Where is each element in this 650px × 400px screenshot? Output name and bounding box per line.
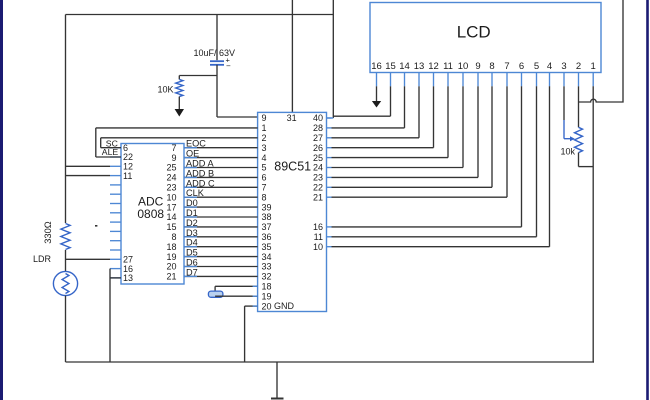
svg-text:ADD A: ADD A	[186, 159, 214, 169]
svg-text:OE: OE	[186, 149, 199, 159]
svg-text:24: 24	[166, 173, 176, 183]
label D5	[186, 248, 198, 258]
wire LCD pin13 to 89C51 pin 27	[332, 86, 420, 138]
label SC	[106, 138, 118, 148]
svg-text:26: 26	[313, 143, 323, 153]
svg-text:6: 6	[519, 61, 524, 72]
svg-text:10k: 10k	[560, 147, 575, 157]
LCD pin stubs	[377, 73, 594, 87]
svg-text:21: 21	[166, 272, 176, 282]
svg-text:3: 3	[561, 61, 566, 72]
label R2 330ohm (vertical)	[43, 221, 53, 244]
svg-text:−: −	[226, 62, 231, 71]
label R1 10K	[157, 85, 173, 95]
wire +5V right vertical to 89C51 pin 40	[332, 0, 334, 118]
ground arrow under LCD pin16	[372, 101, 381, 108]
wire ADC D7 to 89C51 pin 32	[184, 275, 258, 277]
ground arrow under R1	[175, 109, 184, 117]
wire ADC D1 to 89C51 pin 38	[184, 216, 258, 218]
wire LCD pin10 to 89C51 pin 24	[332, 86, 464, 167]
wire LCD pin5 to 89C51 pin 11	[332, 86, 537, 237]
svg-text:ALE: ALE	[102, 147, 119, 157]
svg-text:13: 13	[123, 273, 133, 283]
svg-text:23: 23	[166, 183, 176, 193]
svg-text:16: 16	[313, 222, 323, 232]
svg-text:D2: D2	[186, 218, 198, 228]
label D6	[186, 258, 198, 268]
label U1 ADC 0808	[137, 195, 164, 222]
svg-text:D5: D5	[186, 248, 198, 258]
wire +5V left vertical (to ADC Vcc/Vref and LDR divider)	[65, 15, 67, 224]
resistor R1 10K	[176, 79, 183, 96]
svg-text:25: 25	[166, 163, 176, 173]
page border right (navy)	[646, 0, 649, 400]
label CLK	[186, 188, 205, 198]
svg-text:20: 20	[166, 262, 176, 272]
label R3 10k	[560, 147, 575, 157]
svg-text:CLK: CLK	[186, 188, 205, 198]
wire LCD pin3 to pot wiper	[564, 86, 571, 138]
svg-text:10: 10	[313, 242, 323, 252]
svg-text:23: 23	[313, 173, 323, 183]
svg-text:LCD: LCD	[457, 23, 491, 42]
label LCD	[457, 23, 491, 42]
svg-text:10: 10	[166, 192, 176, 202]
wire EA/VPP pin31 from top	[291, 0, 293, 112]
svg-text:SC: SC	[106, 138, 118, 148]
svg-text:39: 39	[262, 202, 272, 212]
wire cap top from rail	[216, 15, 218, 61]
svg-text:14: 14	[166, 212, 176, 222]
pin numbers ADC right column	[166, 143, 176, 282]
label D3	[186, 228, 198, 238]
svg-text:18: 18	[166, 242, 176, 252]
op LCD box	[370, 3, 601, 73]
wire ALE: 89C51 pin1 to ADC pin22	[96, 128, 258, 157]
label C1 value 10uF/ 63V	[194, 48, 236, 58]
svg-text:8: 8	[262, 192, 267, 202]
svg-text:2: 2	[576, 61, 581, 72]
svg-text:11: 11	[314, 232, 323, 242]
wire pot bottom to pin1 wire	[579, 153, 594, 167]
svg-text:19: 19	[166, 252, 176, 262]
wire 89C51 pin18 to crystal	[215, 286, 258, 291]
svg-text:13: 13	[414, 61, 425, 72]
wire 89C51 pin20 GND to rail	[245, 306, 258, 362]
svg-text:8: 8	[171, 232, 176, 242]
svg-text:35: 35	[262, 242, 272, 252]
svg-text:14: 14	[399, 61, 410, 72]
wire ADC D5 to 89C51 pin 34	[184, 256, 258, 258]
op IC U2 89C51 box	[258, 112, 327, 311]
label U2 89C51	[274, 160, 311, 174]
svg-text:33: 33	[262, 262, 272, 272]
potentiometer R3 10k	[575, 127, 583, 152]
svg-text:ADD B: ADD B	[186, 168, 214, 178]
wire divider junction to ADC pin27	[66, 250, 111, 271]
svg-text:28: 28	[313, 123, 323, 133]
svg-text:17: 17	[166, 202, 176, 212]
svg-text:15: 15	[166, 222, 176, 232]
wire LCD pin16 stub down	[376, 86, 378, 101]
svg-text:D1: D1	[186, 208, 198, 218]
wire ADC D4 to 89C51 pin 35	[184, 246, 258, 248]
svg-text:1: 1	[262, 123, 267, 133]
node (stray junction dot)	[95, 225, 97, 227]
svg-text:12: 12	[428, 61, 439, 72]
label D4	[186, 238, 198, 248]
wire LCD pin1 to ground rail	[592, 86, 595, 362]
svg-text:8: 8	[489, 61, 494, 72]
wire ADC ADD A to 89C51 pin 5	[184, 167, 258, 169]
svg-text:27: 27	[313, 133, 323, 143]
wire LCD pin11 to 89C51 pin 25	[332, 86, 449, 157]
svg-text:37: 37	[262, 222, 272, 232]
label D2	[186, 218, 198, 228]
crystal X1	[208, 291, 223, 297]
label ADD B	[186, 168, 214, 178]
label ALE	[102, 147, 119, 157]
svg-text:0808: 0808	[137, 207, 164, 221]
label ADD C	[186, 178, 215, 188]
wire branch to R1	[179, 76, 217, 80]
svg-text:ADD C: ADD C	[186, 178, 215, 188]
label LDR	[33, 254, 52, 264]
label D1	[186, 208, 198, 218]
label 89C51 GND pin 20	[274, 301, 295, 311]
svg-text:21: 21	[313, 192, 323, 202]
wire LCD pin2 down	[578, 86, 580, 127]
label D7	[186, 267, 198, 277]
svg-text:22: 22	[313, 183, 323, 193]
svg-text:40: 40	[313, 113, 323, 123]
svg-text:31: 31	[287, 113, 297, 123]
wire ADC D2 to 89C51 pin 37	[184, 226, 258, 228]
svg-text:25: 25	[313, 153, 323, 163]
wire ADC OE to 89C51 pin 4	[184, 157, 258, 159]
svg-text:D6: D6	[186, 258, 198, 268]
pin numbers 89C51 left column	[262, 113, 272, 311]
wire LCD pin9 to 89C51 pin 23	[332, 86, 479, 177]
svg-text:5: 5	[534, 61, 539, 72]
svg-text:11: 11	[123, 171, 132, 181]
svg-text:32: 32	[262, 272, 272, 282]
svg-text:D3: D3	[186, 228, 198, 238]
wire 89C51 pin40 stub	[327, 117, 334, 119]
wire 89C51 pin19 to crystal	[215, 295, 258, 297]
wire ADC pin11 to +5V vertical	[66, 175, 111, 177]
wire LCD pin6 to 89C51 pin 16	[332, 86, 522, 227]
wire ADC pin16/pin13 to ground rail	[110, 269, 121, 362]
svg-text:GND: GND	[274, 301, 295, 311]
svg-text:18: 18	[262, 282, 272, 292]
ground symbol	[271, 362, 284, 399]
resistor R2 330ohm	[61, 224, 70, 250]
label D0	[186, 198, 198, 208]
wire LCD pin14 to 89C51 pin 28	[332, 86, 405, 128]
pin number 89C51 pin 31 (EA)	[287, 113, 297, 123]
svg-text:10: 10	[458, 61, 469, 72]
label EOC	[186, 139, 206, 149]
wire SC: 89C51 pin2 to ADC pin6	[101, 138, 258, 148]
svg-text:19: 19	[262, 291, 272, 301]
wire +5V top rail	[66, 14, 334, 16]
wire cap bottom to RST pin 9	[217, 65, 258, 117]
wire ADC CLK to 89C51 pin 8	[184, 196, 258, 198]
photoresistor LDR	[53, 271, 77, 295]
pin numbers LCD 16..1	[371, 61, 596, 72]
wire LCD pin12 to 89C51 pin 26	[332, 86, 434, 147]
wire ADC D0 to 89C51 pin 39	[184, 206, 258, 208]
wire ADC EOC to 89C51 pin 3	[184, 147, 258, 149]
svg-text:D4: D4	[186, 238, 198, 248]
svg-text:9: 9	[171, 153, 176, 163]
wire ADC ADD C to 89C51 pin 7	[184, 186, 258, 188]
svg-text:36: 36	[262, 232, 272, 242]
pot wiper arrow	[570, 136, 575, 141]
svg-text:7: 7	[171, 143, 176, 153]
label OE	[186, 149, 199, 159]
wire ADC D6 to 89C51 pin 33	[184, 266, 258, 268]
ADC left pin stubs (IN0-IN7 etc)	[110, 148, 121, 278]
svg-text:7: 7	[262, 183, 267, 193]
svg-text:LDR: LDR	[33, 254, 52, 264]
svg-text:D7: D7	[186, 267, 198, 277]
svg-text:15: 15	[385, 61, 396, 72]
svg-text:89C51: 89C51	[274, 160, 311, 174]
wire R1 to ground arrow	[178, 97, 180, 110]
svg-text:10K: 10K	[157, 85, 173, 95]
svg-text:7: 7	[504, 61, 509, 72]
89C51 right pin stubs	[327, 118, 332, 247]
svg-text:34: 34	[262, 252, 272, 262]
svg-text:3: 3	[262, 143, 267, 153]
wire ADC ADD B to 89C51 pin 6	[184, 176, 258, 178]
svg-text:38: 38	[262, 212, 272, 222]
svg-text:6: 6	[262, 173, 267, 183]
wire ADC pin12 to +5V vertical	[66, 165, 111, 167]
wire ground rail	[66, 361, 595, 363]
capacitor polarity + -	[226, 56, 232, 71]
svg-text:4: 4	[547, 61, 552, 72]
svg-text:20: 20	[262, 301, 272, 311]
svg-text:24: 24	[313, 163, 323, 173]
svg-text:EOC: EOC	[186, 139, 206, 149]
pin numbers ADC left column	[123, 143, 133, 283]
label ADD A	[186, 159, 214, 169]
svg-text:11: 11	[443, 61, 453, 72]
svg-text:D0: D0	[186, 198, 198, 208]
svg-text:16: 16	[371, 61, 382, 72]
wire LDR bottom to ground rail	[65, 296, 67, 362]
op IC U1 ADC0808 box	[121, 144, 184, 285]
svg-text:2: 2	[262, 133, 267, 143]
svg-text:330Ω: 330Ω	[43, 221, 53, 244]
wire ADC D3 to 89C51 pin 36	[184, 236, 258, 238]
pin numbers 89C51 right column	[313, 113, 323, 252]
svg-text:5: 5	[262, 163, 267, 173]
page border left (navy)	[0, 0, 3, 400]
svg-text:9: 9	[262, 113, 267, 123]
wire LCD pin4 to 89C51 pin 10	[332, 86, 550, 246]
svg-text:4: 4	[262, 153, 267, 163]
wire LCD pin8 to 89C51 pin 22	[332, 86, 493, 187]
wire LCD pin7 to 89C51 pin 21	[332, 86, 508, 197]
capacitor C1 10uF/63V plates	[210, 61, 224, 65]
wire +5V feed with hop over pin1 wire	[579, 0, 624, 102]
wire LCD pin15 to +5V	[333, 86, 390, 116]
svg-text:1: 1	[591, 61, 596, 72]
svg-text:9: 9	[475, 61, 480, 72]
